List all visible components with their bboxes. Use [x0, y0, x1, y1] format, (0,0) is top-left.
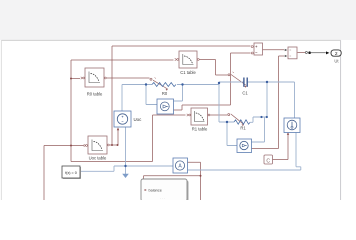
wire: electrical main rail top — [122, 82, 295, 118]
svg-text:C: C — [266, 158, 270, 164]
outport Ut — [331, 50, 341, 64]
wire: From tag C to thermal source control — [273, 132, 290, 159]
subsystem battery balance — [141, 179, 189, 202]
wire: R1 table output to variable resistor R1 control — [208, 114, 245, 127]
wire: Uoc source negative down to ground rail — [125, 127, 127, 166]
lookup table Uoc table — [84, 136, 110, 160]
svg-text:C1: C1 — [242, 90, 248, 95]
svg-text:Uoc: Uoc — [134, 117, 143, 122]
wire: rail branch to voltage sensor U0 right — [174, 85, 183, 102]
wire: RC voltage sensor output up to product block input 2 — [252, 56, 285, 149]
svg-text:f(x) = 0: f(x) = 0 — [65, 171, 77, 175]
sensor U1 voltage sensor across RC — [237, 139, 252, 153]
wire: Uoc table output to source control and to sum — [107, 46, 251, 145]
From tag C — [264, 155, 273, 164]
wire: solver config to ground rail to current sensor — [81, 166, 174, 171]
product block — [285, 47, 297, 59]
svg-text:R1 table: R1 table — [192, 126, 208, 131]
lookup table C1 table — [175, 51, 200, 75]
wire: current sensor output to subsystem and downward — [144, 162, 202, 200]
wire: R0 table output to variable resistor control — [105, 78, 168, 91]
resistor R0 (variable) — [152, 83, 176, 87]
wire: sum output to product block input 1 — [263, 49, 285, 51]
wire: R1 right lead up to rail — [250, 82, 267, 122]
svg-text:balance: balance — [149, 189, 162, 193]
pin: arrow into Uoc source control — [117, 127, 119, 130]
wire: sensor U1 right connection — [252, 117, 265, 142]
sensor U0 voltage sensor across R0 — [157, 99, 174, 114]
node: Uoc output junction — [111, 144, 119, 146]
lookup table R0 table — [81, 68, 107, 97]
source Uoc controlled voltage source — [114, 111, 142, 127]
lookup table R1 table — [187, 108, 210, 131]
svg-text:C1 table: C1 table — [180, 70, 196, 75]
svg-text:Uoc table: Uoc table — [89, 155, 107, 160]
svg-text:R1: R1 — [240, 126, 246, 131]
wire: voltage sensor U1 output up to sum input 2 — [174, 53, 251, 110]
sum block — [251, 43, 262, 55]
sensor A current sensor — [173, 158, 188, 173]
node: bus junction dots — [70, 78, 72, 147]
ground: electrical reference arrow — [122, 166, 129, 178]
wire: C1 table output to variable capacitor control — [198, 60, 247, 88]
wire: rail branch to voltage sensor U0 left — [146, 85, 157, 105]
svg-text:· · ·: · · · — [160, 197, 165, 201]
wire: sensor U1 left connection — [227, 122, 237, 146]
wire: product output to outport — [298, 51, 330, 54]
svg-text:2: 2 — [335, 51, 338, 57]
capacitor C1 (variable) plates — [244, 78, 247, 87]
node: blue junction dots — [124, 81, 268, 167]
svg-text:R0: R0 — [162, 91, 168, 96]
solver configuration block f(x)=0 — [62, 166, 81, 179]
resistor R1 (variable) — [234, 120, 250, 124]
source T thermal/controlled source — [284, 118, 300, 133]
svg-text:R0 table: R0 table — [87, 92, 103, 97]
wire: R1 branch from rail — [219, 82, 234, 122]
wire: SOC bus vertical with branches — [44, 60, 186, 200]
wire: bottom electrical rail to thermal source — [188, 133, 301, 171]
